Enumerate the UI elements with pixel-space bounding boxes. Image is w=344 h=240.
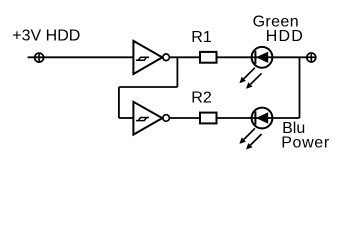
svg-text:HDD: HDD: [266, 28, 303, 45]
wire: U1 output to R1: [169, 56, 200, 58]
svg-text:R1: R1: [191, 29, 212, 46]
wire: R2 to bottom rail right: [217, 117, 300, 119]
wire: left stub through terminal to U1 input: [28, 56, 134, 58]
op-amp U2 (schmitt inverter, bottom): [133, 102, 169, 135]
svg-text:Power: Power: [281, 134, 330, 151]
wire: into U2 input: [119, 117, 133, 119]
wire: to right terminal: [300, 56, 316, 58]
op-amp U1 (schmitt inverter, top): [133, 41, 169, 74]
svg-text:+3V HDD: +3V HDD: [12, 27, 80, 44]
terminal P1 (+3V HDD): [35, 53, 44, 62]
wire: right rail vertical: [299, 57, 301, 118]
resistor R2: [200, 113, 217, 124]
LED D2 (Blu Power): [239, 108, 272, 150]
terminal P2 (+): [307, 53, 316, 62]
LED D1 (Green HDD): [239, 47, 272, 89]
wire: feedback vertical down to U2 input: [118, 87, 120, 118]
wire: feedback horizontal: [119, 86, 177, 88]
resistor R1: [200, 52, 217, 63]
wire: R1 to top rail right: [217, 56, 300, 58]
wire: U2 output to R2: [169, 117, 200, 119]
wire: feedback vertical from top rail: [176, 57, 178, 87]
svg-text:R2: R2: [191, 90, 212, 107]
label Green HDD: [253, 13, 303, 45]
label Blu Power: [281, 120, 330, 152]
